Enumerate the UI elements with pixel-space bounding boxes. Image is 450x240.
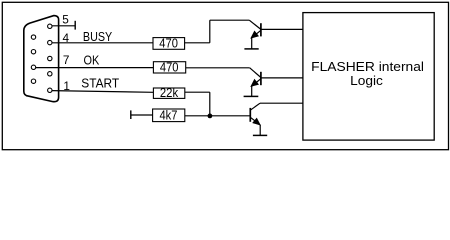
svg-text:OK: OK [84,52,100,67]
svg-text:470: 470 [160,60,179,75]
svg-text:BUSY: BUSY [83,29,113,44]
transistor Q2 [250,68,261,87]
svg-text:5: 5 [62,12,69,26]
resistor R1 470 [153,36,185,51]
pin label 7 [63,53,70,67]
wire Q3 collector to logic box [260,102,303,104]
ground Q3 [253,134,267,136]
wire pin7 to R2 [36,67,153,69]
ground Q1 [244,48,258,50]
FLASHER logic box U1 [303,13,434,141]
svg-text:FLASHER internal: FLASHER internal [311,59,424,74]
wire pin5 stub [52,25,75,27]
wire stub to R4 [131,114,153,116]
net label START [81,76,119,91]
wire pin4 to R1 [52,42,153,44]
wire R4 to Q3 base [185,115,251,117]
pin 5 circle [48,24,52,28]
svg-text:Logic: Logic [350,73,383,88]
pin 3 circle [48,56,52,60]
wire vertical down START [209,92,211,116]
wire Q3 emitter down [259,125,261,135]
pin 1 circle [48,88,52,92]
svg-text:7: 7 [63,53,70,67]
wire R3 to corner [185,91,210,93]
resistor R3 22k [153,85,184,100]
transistor Q3 [250,103,260,125]
wire Q1 emitter down [251,38,253,49]
pin 2 circle [48,72,52,76]
pin 8 circle [31,50,35,54]
pin 6 circle [31,79,35,83]
junction dot [208,114,213,119]
wire R2 to Q2 collector [186,67,250,69]
svg-text:22k: 22k [160,85,179,100]
svg-text:470: 470 [159,36,178,51]
net label OK [84,52,100,67]
pin label 1 [63,79,70,93]
stub terminator bar [74,21,76,30]
wire Q2 emitter down [251,86,253,96]
wire top to Q1 collector [210,19,250,21]
connector J1 (DB9) body [24,16,59,102]
border frame [2,2,448,149]
wire pin1 to R3 [52,91,153,93]
pin label 4 [63,31,70,45]
wire Q2 base to logic box [261,77,303,79]
pin 4 circle [48,40,52,44]
stub terminator bar 4k7 [130,110,132,119]
wire R1 to corner [185,42,210,44]
ground Q2 [244,95,259,97]
wire Q1 base to logic box [261,28,303,30]
resistor R4 4k7 [153,108,185,123]
svg-text:4k7: 4k7 [160,108,178,123]
net label BUSY [83,29,113,44]
resistor R2 470 [153,60,185,75]
pin 9 circle [31,35,35,39]
svg-text:START: START [81,76,119,91]
pin 7 circle [31,65,35,69]
transistor Q1 [249,20,261,38]
pin label 5 [62,12,69,26]
wire vertical up BUSY [209,20,211,43]
